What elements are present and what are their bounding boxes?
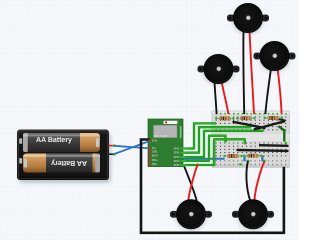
svg-text:AA Battery: AA Battery [51, 159, 87, 166]
resistor R1 [215, 117, 234, 120]
resistor R2 [236, 117, 255, 120]
wire red buzzer PZ4 (bottom left) [188, 164, 198, 201]
svg-text:SPK2: SPK2 [174, 153, 181, 155]
svg-text:AA Battery: AA Battery [36, 137, 72, 144]
wire dark green right edge [279, 126, 285, 141]
buzzer PZ3 (right) [254, 41, 296, 72]
wire black buzzer PZ4 (bottom left) [184, 166, 197, 201]
jumper black A [234, 122, 265, 128]
wire black buzzer PZ2 (left) [215, 81, 217, 114]
battery cell 2 (AA, flipped) [23, 154, 100, 173]
jumper black C [260, 144, 288, 147]
breadboard hole rows (bank A) [216, 117, 287, 130]
breadboard hole rows (bank B) [216, 143, 287, 156]
sound module U1 [148, 119, 183, 167]
wire module->row4 (green) [183, 127, 252, 153]
wire black buzzer PZ3 (right) [265, 68, 271, 114]
wire module->channel short (green) [183, 136, 226, 161]
wire module->bank B (green) [183, 139, 245, 165]
svg-text:SPK+: SPK+ [152, 160, 159, 162]
svg-text:SPK5: SPK5 [174, 165, 181, 167]
resistor R5 [243, 154, 262, 157]
wire red buzzer PZ2 (left) [222, 81, 229, 114]
wire black buzzer PZ5 (bottom right) [246, 161, 250, 201]
jumper black B [255, 121, 284, 129]
svg-text:MP3-TF16P: MP3-TF16P [154, 135, 167, 138]
wire red buzzer PZ1 (top) [250, 30, 255, 114]
breadboard outer rows bottom [216, 161, 287, 165]
module left pins [148, 139, 150, 165]
svg-text:SPK4: SPK4 [174, 161, 181, 163]
module right pin stubs [181, 149, 187, 166]
wire blue battery->module 1 [114, 146, 150, 149]
wire blue short jumper 1 [243, 156, 245, 162]
battery terminal stub red [109, 145, 114, 147]
svg-text:BUSY: BUSY [152, 156, 159, 158]
breadboard top row green connected holes [216, 113, 287, 115]
svg-text:GND: GND [152, 152, 157, 154]
buzzer PZ4 (bottom left) [170, 200, 212, 231]
buzzer PZ1 (top) [227, 3, 269, 34]
jumper black D [238, 149, 288, 152]
battery holder BT1 shadow [19, 133, 111, 183]
wire blue module->bottom bank (under greens) [183, 158, 225, 160]
battery cell 1 (AA) [23, 133, 100, 152]
wire blue short jumper 2 [261, 156, 263, 162]
battery terminal stub black [109, 153, 114, 155]
jumper black B2 [271, 118, 285, 121]
svg-text:SPK1: SPK1 [174, 149, 181, 151]
breadboard [212, 111, 290, 167]
battery holder BT1 [17, 130, 109, 181]
wire red buzzer PZ3 (right) [278, 68, 282, 114]
buzzer PZ5 (bottom right) [232, 200, 274, 231]
resistor R3 [264, 116, 283, 119]
wire module->row5 (green) [183, 131, 264, 157]
svg-text:5V B: 5V B [152, 140, 157, 142]
connected hole dots bottom bank [247, 160, 250, 163]
resistor R4 [223, 154, 242, 157]
wire blue battery->module 2 [114, 141, 150, 154]
wire black buzzer PZ1 (top) [242, 30, 245, 114]
wire module->row3 (green) [183, 123, 217, 148]
wire red buzzer PZ5 (bottom right) [254, 161, 264, 201]
buzzer PZ2 (left) [198, 54, 240, 85]
wire black module->loop (big rectangle) [141, 140, 284, 233]
svg-text:SPK3: SPK3 [174, 157, 181, 159]
svg-text:SPK-: SPK- [152, 164, 158, 166]
